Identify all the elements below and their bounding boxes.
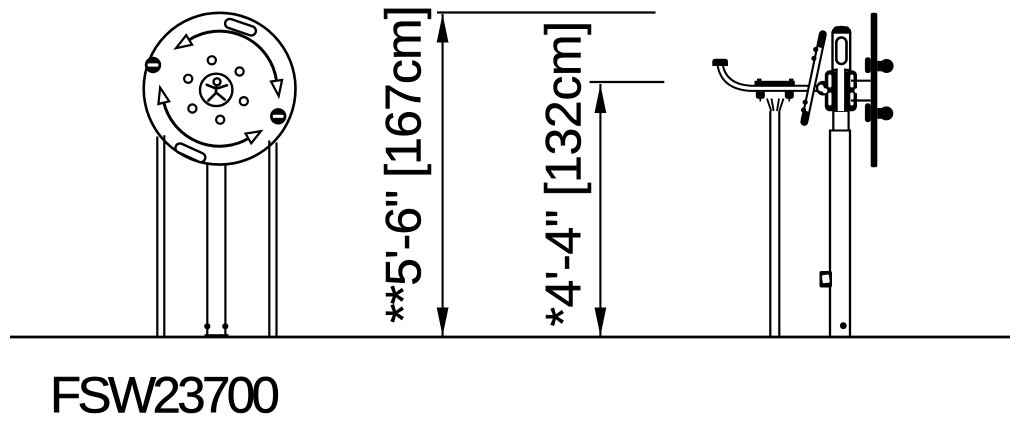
dimension line 167cm (442, 14, 444, 336)
rotation arrow arc top (189, 31, 276, 81)
extension line mid (132cm level) (590, 81, 665, 83)
wheel outer rim (front view) (144, 13, 296, 165)
handlebar grip cap (712, 59, 728, 66)
hub circle with logo person (200, 74, 232, 106)
front left post (157, 135, 164, 336)
front right post (269, 141, 276, 337)
extension line top (167cm level) (437, 11, 656, 13)
handlebar clamp (755, 81, 795, 87)
clamp lug left (756, 92, 765, 100)
head cap (832, 26, 851, 33)
side left post (770, 111, 779, 337)
rotation arrow arc bottom (164, 103, 249, 147)
side main post (830, 131, 850, 337)
axle to wheel (851, 81, 871, 101)
ground line (10, 336, 1010, 339)
clamp lug right (785, 92, 794, 100)
rim slot bottom-left (174, 142, 207, 164)
wheel edge-on bar (871, 13, 878, 167)
head bracket (825, 70, 837, 111)
wheel dots (208, 56, 216, 64)
rim knob right (270, 108, 286, 124)
rim slot top-right (224, 18, 257, 37)
front center post base plate (205, 334, 229, 337)
rim knob left (145, 57, 161, 73)
handlebar hub tip (816, 81, 830, 96)
dimension line 132cm (599, 84, 601, 336)
svg-text:*4'-4" [132cm]: *4'-4" [132cm] (536, 21, 592, 326)
wheel handle lower (865, 103, 871, 122)
front center post (207, 164, 225, 337)
tilted wheel band (801, 34, 823, 122)
head neck with slot (833, 33, 851, 71)
post base bolt (840, 322, 847, 329)
handlebar tube (720, 64, 820, 88)
side post taper support (767, 99, 784, 112)
front center post base bolts (204, 323, 210, 329)
svg-text:**5'-6" [167cm]: **5'-6" [167cm] (376, 6, 432, 323)
post latch (820, 271, 833, 288)
svg-text:FSW23700: FSW23700 (50, 367, 279, 424)
wheel handle upper (865, 57, 871, 73)
